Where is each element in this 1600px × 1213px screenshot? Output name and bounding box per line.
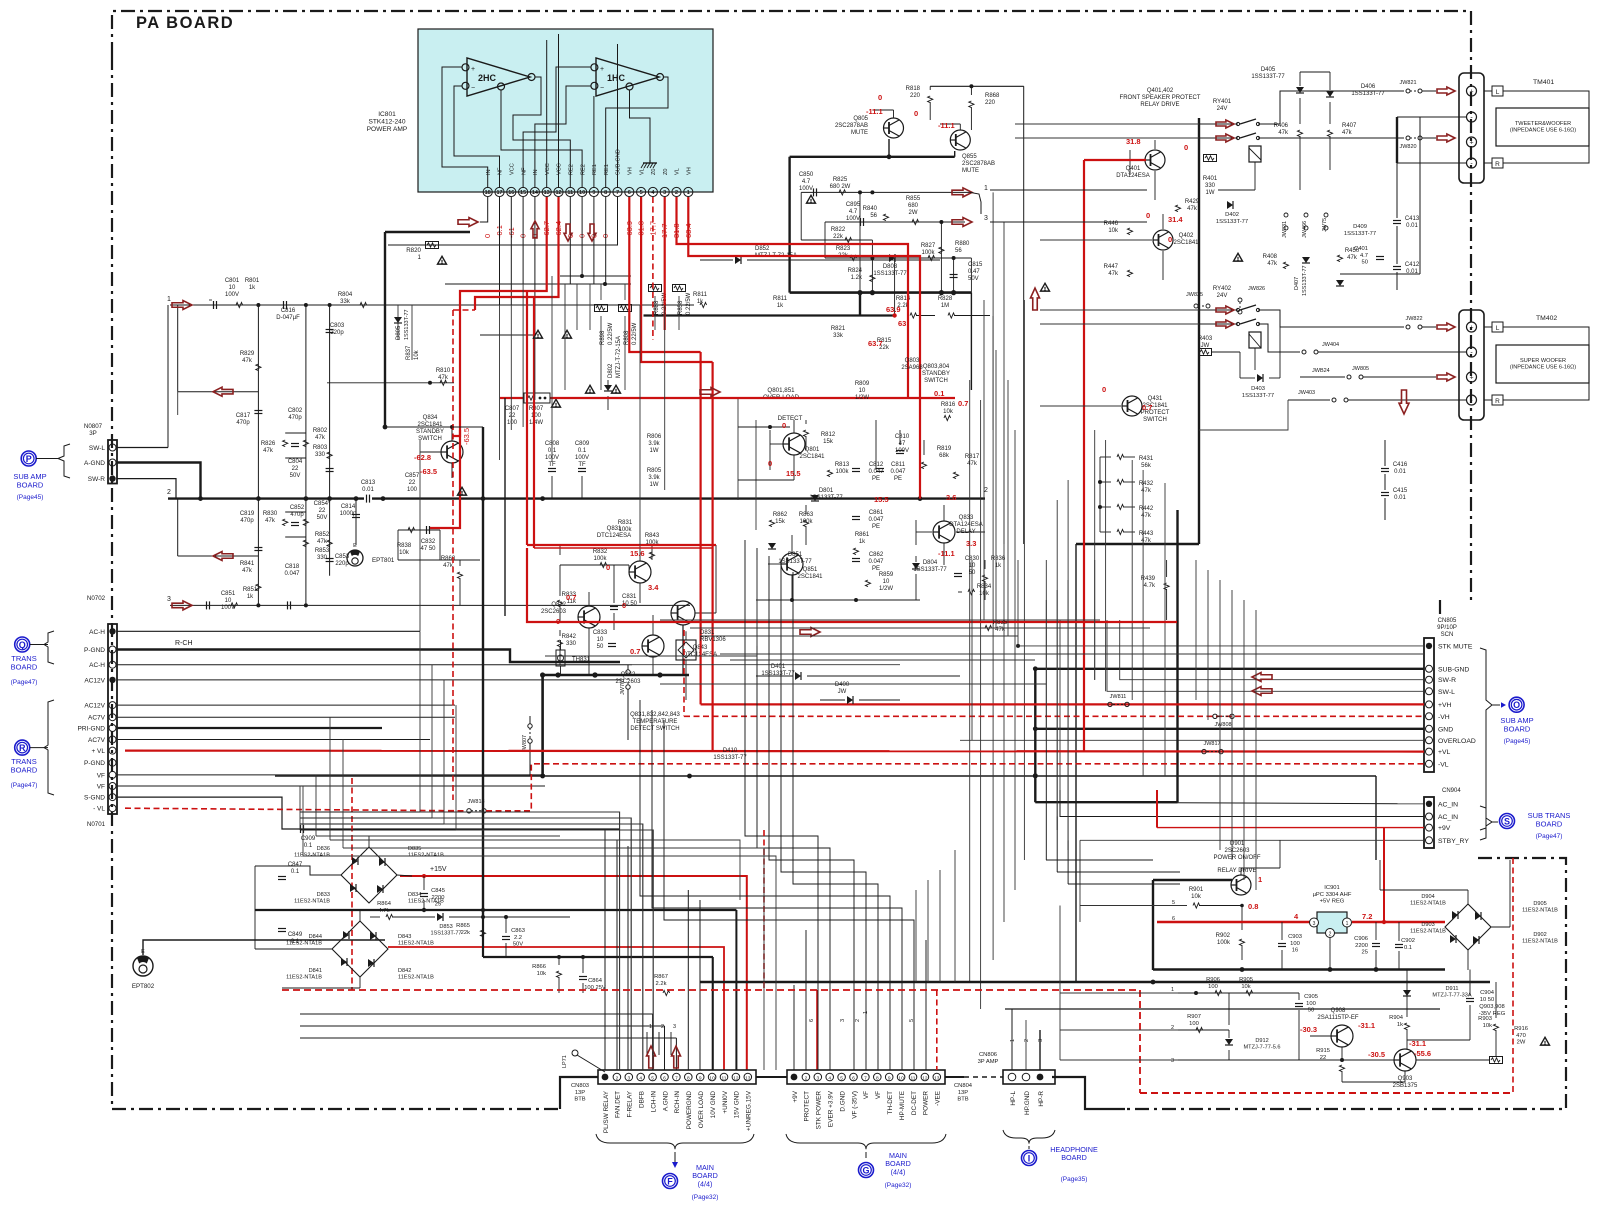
svg-text:1SS133T-77: 1SS133T-77 (1251, 74, 1285, 80)
diode bridge D904 set (1445, 904, 1491, 950)
label D834 (408, 892, 444, 905)
resistor R834 sym (958, 589, 975, 594)
svg-text:D402: D402 (1225, 212, 1239, 218)
svg-text:11: 11 (722, 1076, 727, 1082)
svg-text:IN: IN (533, 169, 539, 175)
red -VL dash mid (486, 764, 1424, 811)
label C801 (225, 278, 240, 298)
wire thick y544 (1076, 543, 1199, 545)
wire vert x177 lower (177, 499, 179, 556)
svg-text:8: 8 (687, 1076, 690, 1082)
svg-text:+: + (471, 66, 475, 73)
label overload (763, 387, 803, 422)
svg-text:C401: C401 (1354, 246, 1368, 252)
svg-text:G: G (862, 1165, 869, 1175)
label R838 (397, 543, 412, 556)
svg-text:Q803,804: Q803,804 (923, 364, 950, 370)
svg-text:0.047: 0.047 (868, 517, 884, 523)
svg-text:10V GND: 10V GND (710, 1091, 717, 1119)
svg-text:22: 22 (509, 413, 516, 419)
red vert x712 (711, 362, 713, 752)
svg-text:SUB-GND: SUB-GND (616, 149, 622, 175)
red arrow overload (700, 388, 720, 397)
svg-text:0: 0 (768, 459, 772, 468)
svg-text:1W: 1W (1206, 190, 1215, 196)
terminal EPT802 (132, 949, 155, 990)
resistor R903 (1478, 982, 1498, 1056)
brace P (58, 444, 70, 478)
svg-text:4.7k: 4.7k (379, 908, 390, 914)
wire thick x1177 up (1176, 510, 1178, 802)
svg-text:7: 7 (675, 1076, 678, 1082)
brace CN806 (1003, 1130, 1055, 1149)
svg-text:1W: 1W (650, 448, 659, 454)
svg-text:E: E (141, 949, 145, 955)
red arrow down tm (1399, 390, 1409, 414)
svg-text:CN904: CN904 (1442, 788, 1461, 794)
svg-text:2SA1115TP-EF: 2SA1115TP-EF (1317, 1015, 1358, 1021)
red arrow JW821 (1437, 87, 1455, 95)
svg-text:0: 0 (1146, 211, 1150, 220)
capacitor C831 sym (610, 590, 618, 630)
svg-text:10: 10 (859, 388, 866, 394)
voltage 0.7 (566, 593, 576, 602)
svg-text:EPT801: EPT801 (372, 557, 395, 564)
wire y664 ext (632, 664, 900, 666)
svg-text:SW-L: SW-L (1438, 689, 1455, 696)
svg-text:3: 3 (816, 1076, 819, 1082)
svg-text:C801: C801 (225, 278, 240, 284)
svg-text:+9V: +9V (792, 1090, 799, 1102)
wire vert x356 ept (355, 499, 357, 545)
svg-text:10: 10 (579, 190, 585, 196)
svg-text:JW403: JW403 (1298, 390, 1315, 396)
svg-text:D802: D802 (608, 363, 614, 378)
svg-text:1W: 1W (650, 482, 659, 488)
svg-text:STK POWER: STK POWER (816, 1091, 823, 1130)
label R826 (261, 441, 276, 454)
resistor R905 (1239, 977, 1253, 996)
svg-text:1SS133T-77: 1SS133T-77 (1351, 91, 1385, 97)
svg-text:RE2: RE2 (580, 164, 586, 175)
connector N0807 (84, 423, 117, 484)
svg-text:47 50: 47 50 (420, 546, 436, 552)
wire q834 col (450, 425, 454, 441)
svg-text:D400: D400 (835, 682, 850, 688)
svg-text:R853: R853 (315, 548, 330, 554)
svg-text:C850: C850 (799, 172, 814, 178)
svg-text:VL: VL (675, 168, 681, 175)
svg-text:5: 5 (651, 1076, 654, 1082)
svg-text:R821: R821 (831, 326, 846, 332)
svg-text:VH: VH (628, 167, 634, 175)
svg-text:C847: C847 (288, 862, 303, 868)
svg-text:+UNREG.15V: +UNREG.15V (746, 1090, 753, 1131)
connector CN805 shell (1424, 618, 1457, 772)
svg-text:2: 2 (805, 1076, 808, 1082)
svg-text:C857: C857 (405, 473, 420, 479)
svg-text:33k: 33k (833, 333, 844, 339)
resistor R443 (1100, 529, 1154, 544)
resistor R907 (1187, 1014, 1203, 1033)
svg-text:2SC2603: 2SC2603 (1224, 848, 1250, 854)
resistor R863 (803, 505, 808, 545)
label R817 (965, 454, 980, 467)
svg-text:PE: PE (872, 566, 880, 572)
ground inside IC801 (641, 160, 657, 168)
wire r810 row (327, 380, 454, 385)
resistor R852 (303, 540, 308, 547)
red fusible link (524, 393, 550, 403)
svg-text:-11.1: -11.1 (866, 107, 883, 116)
resistor R447 (1104, 264, 1133, 277)
wire AC_IN a (1035, 802, 1424, 804)
svg-text:RY402: RY402 (1213, 286, 1232, 292)
red box Q831 top2 (534, 547, 713, 549)
svg-text:0.1: 0.1 (304, 843, 313, 849)
svg-text:D406: D406 (1361, 84, 1376, 90)
label D401 (761, 664, 795, 677)
capacitor C853 (326, 559, 334, 562)
label Q803,804 (922, 364, 950, 384)
svg-text:D904: D904 (1421, 894, 1434, 900)
svg-text:JW: JW (838, 689, 847, 695)
voltage 0 (622, 601, 626, 610)
resistor R406 sym (1274, 123, 1303, 137)
wire AC12V a (117, 679, 620, 681)
svg-text:2SA968: 2SA968 (901, 365, 923, 371)
diode D853 (430, 913, 461, 937)
diode D402 (1216, 201, 1248, 225)
wire verticals to CN803 (300, 830, 712, 1070)
svg-text:RE1: RE1 (592, 164, 598, 175)
border frame top-right (112, 11, 1471, 601)
wire mute right down (970, 293, 972, 390)
terminal R TM402 (1492, 395, 1503, 405)
svg-text:VF: VF (875, 1091, 882, 1099)
svg-text:3P: 3P (89, 430, 97, 437)
wire right v x1420 (1419, 117, 1421, 274)
svg-text:R836: R836 (991, 556, 1006, 562)
border stub right (1439, 600, 1441, 615)
svg-text:47k: 47k (1267, 261, 1278, 267)
red arrow left b (213, 552, 233, 561)
svg-text:POWER AMP: POWER AMP (367, 126, 408, 133)
svg-text:RE1: RE1 (604, 164, 610, 175)
svg-text:-11.1: -11.1 (938, 121, 955, 130)
svg-text:1/2W: 1/2W (879, 586, 893, 592)
svg-text:R809: R809 (855, 381, 870, 387)
svg-text:R818: R818 (906, 86, 921, 92)
resistor R841 (256, 584, 261, 591)
svg-text:R852: R852 (315, 532, 330, 538)
svg-text:1SS133T-77: 1SS133T-77 (913, 567, 947, 573)
svg-text:JWB24: JWB24 (1312, 368, 1330, 374)
red +VH line (701, 703, 1424, 705)
svg-text:D835: D835 (408, 846, 421, 852)
svg-text:0: 0 (622, 601, 626, 610)
resistor R866 (532, 964, 561, 978)
svg-text:3: 3 (663, 190, 666, 196)
red vert x894 up (894, 258, 896, 316)
wire bridge2 top (255, 908, 736, 1070)
label JW825 (1186, 292, 1210, 308)
svg-text:0.47: 0.47 (968, 269, 980, 275)
label R898 (600, 322, 614, 345)
svg-text:2SC1841: 2SC1841 (797, 574, 823, 580)
wire q805 col (872, 110, 893, 118)
svg-text:-63.5: -63.5 (420, 467, 437, 476)
svg-text:SWITCH: SWITCH (924, 378, 948, 384)
jumper JW807 (522, 716, 532, 776)
label R842b (562, 634, 577, 647)
svg-text:AC12V: AC12V (84, 677, 105, 684)
svg-text:+5V REG: +5V REG (1320, 899, 1345, 905)
svg-text:R: R (1495, 161, 1500, 168)
capacitor C413 sym (1393, 216, 1420, 229)
svg-text:0: 0 (1184, 143, 1188, 152)
capacitor C903 (1278, 922, 1302, 970)
label JW831 (1282, 213, 1288, 238)
voltage 0.7 (958, 399, 968, 408)
warning relay (1234, 253, 1243, 261)
wire x1076 v (1075, 544, 1077, 983)
label D904 (1410, 894, 1446, 907)
label R803 (313, 445, 328, 458)
label JW404 (1322, 342, 1339, 348)
svg-text:R866: R866 (532, 964, 546, 970)
resistor R803 (327, 452, 332, 459)
voltage 0.7 (630, 647, 640, 656)
op-amp IC801 STK412-240 block (418, 29, 713, 192)
board ref P (21, 451, 58, 466)
terminal L TM401 (1492, 86, 1503, 96)
wire thick x860 down (859, 293, 861, 316)
resistor R446 (1104, 221, 1133, 235)
svg-text:1: 1 (167, 296, 171, 303)
label D851 (778, 552, 812, 565)
label R830 (263, 511, 278, 524)
wire jw403 drop (1199, 400, 1288, 430)
svg-text:C832: C832 (421, 539, 436, 545)
wire SW-L in (1107, 620, 1424, 691)
label C853 (335, 554, 350, 567)
capacitor C814 (352, 515, 360, 518)
svg-text:12: 12 (733, 1076, 739, 1082)
svg-text:2W: 2W (909, 210, 918, 216)
svg-text:0.7: 0.7 (1142, 403, 1152, 412)
resistor R450 sym (1337, 248, 1359, 262)
board ref S (1492, 814, 1515, 829)
svg-text:0: 0 (782, 421, 786, 430)
svg-text:15.6: 15.6 (630, 549, 645, 558)
wire mute bottom thick (790, 290, 972, 295)
svg-text:R406: R406 (1274, 123, 1289, 129)
wire d805 branch (394, 305, 402, 340)
svg-text:(Page45): (Page45) (1504, 738, 1531, 745)
wire center v media (876, 420, 924, 470)
red wire pin13 (452, 197, 547, 436)
svg-text:D-047µF: D-047µF (276, 315, 300, 321)
svg-text:MUTE: MUTE (851, 130, 868, 136)
red arrow swl (1252, 687, 1272, 696)
svg-text:47k: 47k (317, 539, 328, 545)
node line2 (167, 487, 988, 496)
svg-text:16: 16 (1292, 948, 1298, 954)
svg-text:1.2k: 1.2k (851, 275, 863, 281)
capacitor C851 (207, 601, 210, 609)
wire relay thick v (1198, 118, 1200, 544)
svg-text:3: 3 (984, 215, 988, 222)
svg-text:POWER: POWER (923, 1091, 930, 1116)
wire d831 out (685, 631, 687, 700)
svg-text:-11.1: -11.1 (938, 549, 955, 558)
svg-text:4.7: 4.7 (849, 209, 858, 215)
red wire y398 (500, 397, 955, 399)
transistor Q401 (1116, 150, 1165, 179)
resistor R825 (830, 177, 851, 195)
wire TM402 m- (1420, 351, 1466, 353)
voltage 63.9 (886, 305, 901, 314)
svg-text:VCC: VCC (557, 163, 563, 175)
diode D403 sym (1242, 374, 1274, 399)
svg-text:C804: C804 (288, 459, 303, 465)
red arrow left a (213, 387, 233, 396)
label MAIN BOARD G (885, 1151, 912, 1189)
IC801 pins 1-18 (483, 149, 693, 196)
svg-text:C815: C815 (968, 262, 983, 268)
svg-text:680: 680 (908, 203, 919, 209)
svg-text:- VL: - VL (93, 806, 105, 813)
svg-text:D852: D852 (755, 246, 770, 252)
wire vert x306 (305, 305, 307, 605)
svg-text:10: 10 (898, 1076, 904, 1082)
svg-text:(4/4): (4/4) (698, 1179, 713, 1188)
svg-text:C864: C864 (588, 978, 603, 984)
capacitor C819 (254, 548, 262, 551)
resistor R836 sym (982, 560, 987, 600)
label SUB AMP BOARD P (13, 472, 46, 501)
voltage 0 (1102, 385, 1106, 394)
voltage 0 (1146, 211, 1150, 220)
label R811 (773, 296, 788, 309)
svg-text:2: 2 (616, 1076, 619, 1082)
wire bridge1 right (397, 875, 412, 876)
svg-text:Q801,851: Q801,851 (767, 387, 795, 394)
label C857 (405, 473, 420, 493)
wire arrow line lower (178, 555, 259, 557)
svg-text:0: 0 (606, 563, 610, 572)
svg-text:RBV1306: RBV1306 (700, 637, 726, 643)
diode D400 sym (820, 696, 900, 704)
svg-text:SUB-GND: SUB-GND (1438, 666, 1469, 673)
resistor R833 sym (557, 590, 562, 622)
svg-text:2SB1375: 2SB1375 (1393, 1083, 1418, 1089)
svg-text:R851: R851 (243, 587, 258, 593)
svg-text:CN803: CN803 (571, 1083, 589, 1089)
svg-text:C813: C813 (361, 480, 376, 486)
svg-text:0.01: 0.01 (362, 487, 374, 493)
svg-text:1: 1 (1010, 1039, 1016, 1042)
svg-text:AC_IN: AC_IN (1438, 801, 1458, 808)
svg-text:-63.5: -63.5 (462, 428, 471, 445)
svg-text:IN: IN (486, 169, 492, 175)
wire hp stubs (1010, 1039, 1044, 1042)
svg-text:1: 1 (418, 254, 422, 261)
label R841 (240, 561, 255, 574)
svg-text:C809: C809 (575, 441, 590, 447)
svg-text:VF: VF (97, 772, 105, 779)
red vert x527 (526, 291, 528, 545)
svg-text:Q842: Q842 (621, 672, 636, 678)
label relay drive (1120, 88, 1201, 108)
red arrow down x568 (564, 224, 572, 241)
svg-text:47k: 47k (1108, 271, 1119, 277)
svg-text:VF: VF (863, 1091, 870, 1099)
capacitor C904 (1407, 970, 1495, 1041)
svg-text:C412: C412 (1405, 262, 1420, 268)
wire q834 emi (451, 463, 453, 478)
svg-text:BOARD: BOARD (17, 481, 44, 490)
red arrow relay1a (1216, 120, 1234, 128)
label R832 (593, 549, 608, 562)
svg-text:-55.6: -55.6 (1414, 1049, 1431, 1058)
svg-text:1SS133T-77: 1SS133T-77 (430, 931, 461, 937)
wire pin7 sub-gnd (388, 197, 618, 245)
svg-text:DBFB: DBFB (639, 1091, 646, 1108)
wire STK MUTE (1016, 560, 1424, 648)
wire relay1 feed (1199, 124, 1238, 138)
resistor R906 (1206, 977, 1222, 996)
resistor R901 (1180, 887, 1242, 908)
resistor R431 (1100, 454, 1154, 469)
svg-text:C831: C831 (622, 594, 637, 600)
svg-text:100V: 100V (846, 216, 860, 222)
svg-text:C863: C863 (511, 928, 525, 934)
svg-text:1/4W: 1/4W (529, 420, 543, 426)
capacitor C801 (209, 300, 217, 309)
svg-text:R816: R816 (941, 402, 956, 408)
svg-text:SCN: SCN (1441, 632, 1454, 638)
border frame bottom-right (1125, 858, 1566, 1109)
wire curtain drop3 (1067, 840, 1069, 884)
svg-text:IC801: IC801 (378, 111, 396, 118)
svg-text:11ES2-NTA1B: 11ES2-NTA1B (286, 975, 322, 981)
label R851 (243, 587, 258, 600)
svg-text:330: 330 (1205, 183, 1216, 189)
capacitor C401 sym (1354, 246, 1384, 266)
wire SW-L (117, 447, 168, 449)
svg-text:6: 6 (628, 190, 631, 196)
terminal R TM401 (1492, 158, 1503, 168)
svg-text:R801: R801 (245, 278, 260, 284)
svg-text:JW807: JW807 (522, 735, 528, 752)
label R837 (406, 345, 420, 360)
connector TM402 pins (1467, 322, 1477, 405)
svg-text:4.7: 4.7 (802, 179, 811, 185)
wire cn805 feed lines (660, 560, 1424, 660)
svg-text:R916: R916 (1514, 1026, 1528, 1032)
wire AC-H 2 (117, 664, 632, 666)
voltage 3.3 (966, 539, 976, 548)
svg-text:220p: 220p (330, 330, 344, 336)
svg-text:DTC124ESA: DTC124ESA (597, 533, 631, 539)
svg-text:3.4: 3.4 (648, 583, 659, 592)
svg-text:100: 100 (1189, 1021, 1199, 1027)
svg-text:C854*: C854* (314, 501, 331, 507)
svg-text:DC-DET: DC-DET (911, 1091, 918, 1115)
svg-text:0.7: 0.7 (958, 399, 968, 408)
